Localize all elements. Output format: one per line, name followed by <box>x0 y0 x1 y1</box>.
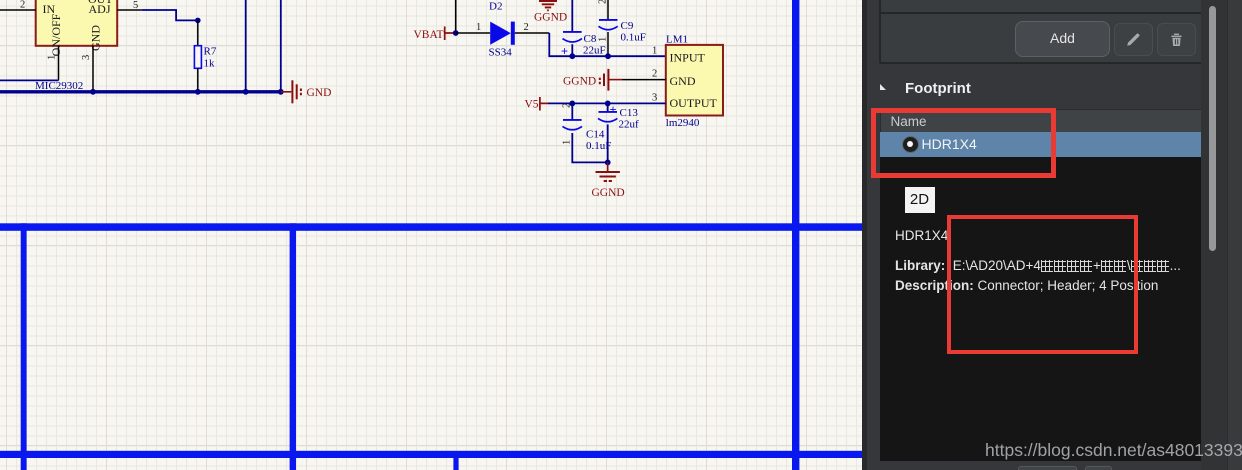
svg-text:2: 2 <box>652 69 657 80</box>
junction node C8/input <box>569 53 575 59</box>
svg-text:SS34: SS34 <box>489 47 513 59</box>
svg-text:LM1: LM1 <box>666 34 688 46</box>
IC U1 MIC29302 body <box>36 0 118 46</box>
svg-text:2: 2 <box>562 103 573 108</box>
wire C9 lower lead <box>607 32 609 56</box>
pin 3 stub <box>92 46 94 92</box>
capacitor C13 plates <box>607 103 609 111</box>
svg-text:3: 3 <box>652 93 657 104</box>
svg-text:GGND: GGND <box>563 76 596 88</box>
wire input net to LM1 pin1 <box>572 55 666 57</box>
wire from top to C8 <box>571 0 573 32</box>
svg-text:2: 2 <box>524 22 529 33</box>
wire VBAT to D2 anode <box>456 32 491 34</box>
resistor R7 <box>194 46 201 69</box>
capacitor C8 plates <box>563 31 582 33</box>
junction node mid/bus <box>243 89 249 95</box>
svg-text:1: 1 <box>562 140 573 145</box>
capacitor C9 plates <box>599 19 618 21</box>
sheet partition blue line vertical right <box>792 0 799 470</box>
svg-text:OUTPUT: OUTPUT <box>670 96 718 110</box>
vertical wire to top B <box>280 0 282 92</box>
wire R7 upper lead <box>197 20 199 45</box>
junction node C9/input <box>605 53 611 59</box>
wire C8 lower lead <box>571 44 573 56</box>
power ground GGND top symbol <box>539 1 557 10</box>
svg-text:C14: C14 <box>586 129 605 141</box>
svg-text:C9: C9 <box>621 20 634 32</box>
svg-text:22uF: 22uF <box>583 45 606 57</box>
svg-text:+: + <box>561 44 568 58</box>
svg-text:C8: C8 <box>584 33 597 45</box>
IC LM1 lm2940 body <box>666 45 723 116</box>
svg-text:3: 3 <box>81 55 92 60</box>
svg-text:lm2940: lm2940 <box>666 117 700 129</box>
wire C9 upper lead <box>607 0 609 20</box>
svg-text:ON/OFF: ON/OFF <box>49 13 63 56</box>
vertical wire to top A <box>245 0 247 92</box>
junction node end/bus <box>278 89 284 95</box>
sheet partition blue line vertical mid <box>290 223 296 470</box>
svg-text:1: 1 <box>47 55 58 60</box>
wire jog from pin5 to R7 <box>142 10 198 20</box>
svg-text:V5: V5 <box>525 99 539 111</box>
svg-text:2: 2 <box>20 0 25 11</box>
wire C13 lower lead <box>607 124 609 162</box>
vertical wire from top to VBAT node <box>455 0 457 33</box>
svg-text:0.1uF: 0.1uF <box>586 140 611 152</box>
svg-text:1: 1 <box>476 22 481 33</box>
pin 2 stub <box>0 9 36 11</box>
svg-text:D2: D2 <box>489 1 502 13</box>
wire D2 cathode to C8 <box>515 32 550 34</box>
wire GGND to LM1 pin2 <box>622 79 666 81</box>
sheet partition blue line vertical bottom stub <box>453 456 458 470</box>
power ground GGND mid symbol <box>600 69 622 91</box>
junction node GGND bottom <box>605 160 611 166</box>
power ground GGND bottom symbol <box>596 162 620 181</box>
svg-text:GGND: GGND <box>534 12 567 24</box>
svg-text:GND: GND <box>89 25 103 51</box>
diode D2 <box>490 22 511 45</box>
svg-text:0.1uF: 0.1uF <box>621 32 646 44</box>
svg-text:VBAT: VBAT <box>414 29 444 41</box>
svg-text:INPUT: INPUT <box>670 51 706 65</box>
svg-text:C13: C13 <box>620 107 639 119</box>
junction node VBAT <box>453 30 459 36</box>
svg-text:1: 1 <box>598 37 609 42</box>
wire C14 lower lead <box>572 133 607 162</box>
junction node C13/V5 <box>605 101 611 107</box>
major grid lines <box>0 0 862 470</box>
sheet partition blue line horizontal bottom <box>0 451 862 458</box>
svg-text:MIC29302: MIC29302 <box>35 80 83 92</box>
svg-text:1k: 1k <box>204 58 216 70</box>
junction node C14/V5 <box>569 101 575 107</box>
junction node R7/bus <box>195 89 201 95</box>
wire down to input net <box>549 33 572 56</box>
pin 1 stub <box>58 46 60 81</box>
svg-text:GGND: GGND <box>592 187 625 199</box>
svg-text:ADJ: ADJ <box>89 2 111 16</box>
junction node pin3/bus <box>90 89 96 95</box>
svg-text:+: + <box>610 103 617 117</box>
junction node at R7 top net <box>195 18 201 24</box>
svg-text:1: 1 <box>652 46 657 57</box>
thick GND bus wire <box>0 90 281 93</box>
wire pin1 to left edge <box>0 79 59 81</box>
svg-text:GND: GND <box>670 74 696 88</box>
capacitor C14 plates <box>563 119 582 121</box>
svg-text:2: 2 <box>598 0 609 4</box>
wire C14 upper lead <box>571 103 573 119</box>
wire V5 to LM1 pin3 <box>548 102 666 104</box>
svg-text:R7: R7 <box>204 46 217 58</box>
svg-text:GND: GND <box>307 87 332 99</box>
svg-text:5: 5 <box>133 0 138 11</box>
sheet partition blue line horizontal mid <box>0 223 862 231</box>
wire R7 lower lead <box>197 68 199 92</box>
sheet partition blue line vertical left <box>21 223 27 470</box>
power ground GND symbol <box>281 80 301 103</box>
pin 5 stub <box>117 9 142 11</box>
svg-text:22uf: 22uf <box>619 119 640 131</box>
